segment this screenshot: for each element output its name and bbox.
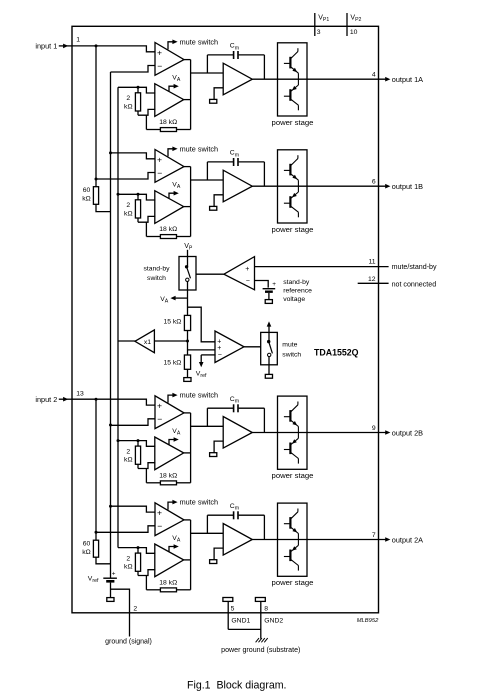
svg-text:18 kΩ: 18 kΩ bbox=[159, 226, 177, 233]
mute switch control arrow ch1B bbox=[168, 149, 173, 157]
ground tab below mute switch bbox=[268, 365, 270, 375]
svg-text:power stage: power stage bbox=[272, 225, 314, 234]
wire ch2B inv input from Vref bus bbox=[111, 419, 156, 426]
resistor 2 kOhm ch2B bbox=[137, 441, 139, 447]
power stage internal wire ch1A bbox=[278, 78, 308, 80]
svg-text:18 kΩ: 18 kΩ bbox=[159, 580, 177, 587]
wire summing op-amp to mute switch bbox=[244, 346, 261, 348]
svg-text:switch: switch bbox=[147, 275, 166, 282]
transistor upper NPN ch2A bbox=[284, 523, 291, 525]
op-amp output stage ch1A bbox=[223, 63, 252, 95]
resistor 15 kOhm upper bbox=[184, 315, 190, 330]
svg-text:2: 2 bbox=[133, 606, 137, 613]
svg-text:kΩ: kΩ bbox=[82, 549, 90, 556]
wire ch1A inv input from Vref bus bbox=[111, 66, 156, 73]
svg-text:ground (signal): ground (signal) bbox=[105, 638, 152, 645]
svg-text:11: 11 bbox=[369, 259, 376, 266]
wire VA bus bbox=[117, 87, 119, 547]
svg-text:kΩ: kΩ bbox=[124, 564, 132, 571]
svg-text:kΩ: kΩ bbox=[124, 103, 132, 110]
wire Vref to summing op-amp - bbox=[201, 354, 215, 356]
mute switch box bbox=[261, 332, 278, 364]
svg-text:kΩ: kΩ bbox=[82, 196, 90, 203]
resistor 18 kOhm ch2A bbox=[146, 589, 160, 591]
svg-text:+: + bbox=[157, 154, 162, 164]
svg-text:mute/stand-by: mute/stand-by bbox=[392, 263, 437, 271]
svg-text:5: 5 bbox=[231, 606, 235, 613]
wire ch1A op-amp to power stage bbox=[252, 78, 277, 80]
wire stand-by switch to VA divider bbox=[187, 290, 189, 315]
power stage box ch2A bbox=[278, 503, 308, 576]
ground tab below divider bbox=[187, 369, 189, 377]
svg-text:60: 60 bbox=[83, 187, 91, 194]
resistor 18 kOhm ch1B bbox=[146, 236, 160, 238]
power stage box ch1A bbox=[278, 43, 308, 116]
svg-text:6: 6 bbox=[372, 179, 376, 186]
signal ground tab ch1B bbox=[214, 195, 223, 207]
mute switch control arrow ch2A bbox=[168, 502, 173, 510]
op-amp input stage ch2B bbox=[155, 396, 184, 429]
svg-text:12: 12 bbox=[368, 276, 376, 283]
svg-text:+: + bbox=[112, 570, 116, 577]
svg-text:switch: switch bbox=[282, 352, 301, 359]
wire ch2B non-inv input from input line bbox=[72, 399, 156, 405]
wire stand-by switch to comparator bbox=[196, 273, 224, 275]
svg-text:2: 2 bbox=[126, 555, 130, 562]
wire output pin 9 ch2B bbox=[307, 432, 386, 434]
wire input 2 bias bus bbox=[95, 399, 97, 540]
svg-text:+: + bbox=[272, 281, 276, 288]
svg-text:−: − bbox=[157, 168, 162, 178]
svg-text:power stage: power stage bbox=[272, 578, 314, 587]
svg-text:mute switch: mute switch bbox=[180, 144, 219, 153]
svg-text:13: 13 bbox=[76, 391, 84, 398]
resistor 18 kOhm ch1A bbox=[146, 129, 160, 131]
wire ch1B op-amp to power stage bbox=[252, 185, 277, 187]
resistor 18 kOhm ch2B bbox=[146, 482, 160, 484]
power stage internal wire ch1B bbox=[278, 185, 308, 187]
wire ch2B VA inv input node bbox=[138, 463, 155, 469]
resistor 2 kOhm ch1B bbox=[137, 194, 139, 200]
power stage box ch2B bbox=[278, 396, 308, 469]
node input 2 junction bbox=[95, 398, 98, 401]
transistor lower PNP ch1B bbox=[284, 202, 291, 204]
mute switch contact bbox=[268, 332, 270, 341]
svg-text:7: 7 bbox=[372, 532, 376, 539]
wire comparator tap to summing op-amp bbox=[188, 307, 216, 342]
svg-text:−: − bbox=[218, 352, 222, 359]
op-amp VA stage ch1B bbox=[155, 191, 184, 224]
wire divider middle bbox=[187, 331, 189, 356]
pin 13 input 2 bbox=[59, 398, 72, 400]
svg-text:reference: reference bbox=[283, 288, 312, 295]
svg-text:kΩ: kΩ bbox=[124, 210, 132, 217]
power stage box ch1B bbox=[278, 150, 308, 223]
wire ch1B to output op-amp bbox=[191, 179, 224, 181]
pin 5 GND1 bbox=[223, 598, 233, 602]
svg-text:output 1A: output 1A bbox=[392, 75, 423, 84]
wire ch2B to output op-amp bbox=[191, 425, 224, 427]
wire Vref bus bbox=[110, 72, 112, 578]
svg-text:+: + bbox=[217, 345, 221, 352]
resistor 2 kOhm ch2A bbox=[137, 548, 139, 554]
svg-text:MLB952: MLB952 bbox=[357, 618, 379, 624]
svg-text:18 kΩ: 18 kΩ bbox=[159, 119, 177, 126]
signal ground tab ch1A bbox=[214, 88, 223, 100]
svg-text:output 2A: output 2A bbox=[392, 535, 423, 544]
svg-text:10: 10 bbox=[350, 29, 358, 36]
signal ground tab ch2B bbox=[214, 441, 223, 453]
wire ch1A VA inv input node bbox=[138, 109, 155, 115]
stand-by switch contact bbox=[187, 257, 189, 267]
transistor lower PNP ch2A bbox=[284, 556, 291, 558]
wire VP to stand-by switch bbox=[187, 250, 189, 257]
op-amp input stage ch1A bbox=[155, 43, 184, 76]
svg-text:−: − bbox=[157, 521, 162, 531]
wire ch2A VA inv input node bbox=[138, 570, 155, 576]
svg-text:3: 3 bbox=[317, 29, 321, 36]
svg-text:60: 60 bbox=[83, 541, 91, 548]
svg-text:+: + bbox=[157, 508, 162, 518]
wire ch1B output junction bbox=[184, 166, 191, 168]
transistor upper NPN ch2B bbox=[284, 416, 291, 418]
svg-text:8: 8 bbox=[264, 606, 268, 613]
svg-text:2: 2 bbox=[126, 448, 130, 455]
svg-text:Fig.1 Block diagram.: Fig.1 Block diagram. bbox=[187, 679, 287, 691]
svg-text:TDA1552Q: TDA1552Q bbox=[314, 348, 359, 358]
svg-text:mute switch: mute switch bbox=[180, 498, 219, 507]
wire ch1A output junction bbox=[184, 59, 191, 61]
svg-text:x1: x1 bbox=[144, 339, 151, 346]
svg-text:GND1: GND1 bbox=[231, 618, 250, 625]
op-amp VA stage ch2B bbox=[155, 437, 184, 470]
svg-text:output 1B: output 1B bbox=[392, 182, 423, 191]
pin 8 GND2 bbox=[255, 598, 265, 602]
svg-text:input 1: input 1 bbox=[35, 42, 57, 51]
svg-text:+: + bbox=[157, 401, 162, 411]
wire input 1 bias bus bbox=[95, 46, 97, 187]
svg-text:15 kΩ: 15 kΩ bbox=[163, 318, 181, 325]
capacitor Cm ch1A bbox=[206, 55, 208, 73]
resistor 60 kOhm (input 2) bbox=[93, 540, 98, 557]
pin 1 input 1 bbox=[59, 45, 72, 47]
svg-text:2: 2 bbox=[126, 95, 130, 102]
capacitor Cm ch1B bbox=[206, 162, 208, 180]
VA control arrow ch1A bbox=[169, 86, 174, 91]
svg-text:not connected: not connected bbox=[392, 280, 437, 288]
wire ch2A VA non-inv input from VA bus bbox=[118, 548, 155, 554]
svg-text:power stage: power stage bbox=[272, 471, 314, 480]
capacitor Cm ch2A bbox=[206, 515, 208, 533]
wire ch2B op-amp to power stage bbox=[252, 432, 277, 434]
op-amp input stage ch1B bbox=[155, 150, 184, 183]
svg-text:+: + bbox=[157, 47, 162, 57]
transistor lower PNP ch1A bbox=[284, 95, 291, 97]
op-amp input stage ch2A bbox=[155, 503, 184, 536]
svg-text:power stage: power stage bbox=[272, 118, 314, 127]
wire ch1B non-inv input from Vref bus bbox=[111, 153, 156, 159]
svg-text:−: − bbox=[157, 61, 162, 71]
svg-text:stand-by: stand-by bbox=[143, 266, 170, 273]
op-amp VA stage ch2A bbox=[155, 544, 184, 577]
wire ch1A to output op-amp bbox=[191, 72, 224, 74]
capacitor Cm ch2B bbox=[206, 408, 208, 426]
wire ch1A VA non-inv input from VA bus bbox=[118, 87, 155, 93]
svg-text:voltage: voltage bbox=[283, 296, 305, 303]
svg-text:GND2: GND2 bbox=[264, 618, 283, 625]
svg-text:mute: mute bbox=[282, 342, 297, 349]
pin 12 not connected stub bbox=[358, 282, 389, 284]
svg-text:1: 1 bbox=[76, 36, 80, 43]
wire output pin 7 ch2A bbox=[307, 539, 386, 541]
mute switch control arrow ch2B bbox=[168, 395, 173, 403]
wire x1 buffer line bbox=[118, 340, 188, 342]
wire ch2B VA non-inv input from VA bus bbox=[118, 441, 155, 447]
svg-text:9: 9 bbox=[372, 425, 376, 432]
svg-text:stand-by: stand-by bbox=[283, 279, 310, 286]
svg-text:15 kΩ: 15 kΩ bbox=[163, 360, 181, 367]
signal ground tab ch2A bbox=[214, 548, 223, 560]
svg-text:mute switch: mute switch bbox=[180, 37, 219, 46]
svg-text:output 2B: output 2B bbox=[392, 428, 423, 437]
wire ch2A to output op-amp bbox=[191, 532, 224, 534]
wire 60k (input 2) to Vref bus bbox=[96, 557, 111, 564]
svg-text:2: 2 bbox=[126, 202, 130, 209]
wire ch1A non-inv input from input line bbox=[72, 46, 156, 52]
op-amp mute summing bbox=[215, 331, 244, 363]
wire ch2A op-amp to power stage bbox=[252, 539, 277, 541]
svg-text:−: − bbox=[157, 414, 162, 424]
wire divider to summing op-amp + bbox=[188, 349, 216, 351]
transistor upper NPN ch1A bbox=[284, 62, 291, 64]
wire ch1B VA inv input node bbox=[138, 216, 155, 222]
power stage internal wire ch2B bbox=[278, 432, 308, 434]
wire GND1 to GND2 bbox=[228, 628, 261, 630]
wire ch2A non-inv input from Vref bus bbox=[111, 506, 156, 512]
resistor 2 kOhm ch1A bbox=[137, 87, 139, 93]
svg-text:power ground (substrate): power ground (substrate) bbox=[221, 646, 300, 654]
op-amp output stage ch1B bbox=[223, 170, 252, 202]
wire ch1B inv input from input bus bbox=[96, 173, 156, 180]
IC boundary box bbox=[72, 26, 379, 613]
VA control arrow ch2B bbox=[169, 440, 174, 445]
wire to pin 2 ground (signal) bbox=[111, 589, 130, 636]
VA tap arrow bbox=[174, 297, 188, 299]
stand-by reference voltage source bbox=[255, 281, 269, 288]
VA control arrow ch2A bbox=[169, 547, 174, 552]
wire ch2B output junction bbox=[184, 412, 191, 414]
svg-text:kΩ: kΩ bbox=[124, 457, 132, 464]
power ground symbol bbox=[256, 638, 259, 642]
wire ch2A inv input from input bus bbox=[96, 526, 156, 533]
op-amp VA stage ch1A bbox=[155, 84, 184, 117]
transistor lower PNP ch2B bbox=[284, 449, 291, 451]
pin 10 VP2 supply bbox=[346, 13, 348, 36]
pin 11 mute/stand-by bbox=[255, 266, 389, 268]
wire ch1B VA non-inv input from VA bus bbox=[118, 194, 155, 200]
pin 3 VP1 supply bbox=[314, 13, 316, 36]
svg-text:−: − bbox=[246, 278, 250, 285]
mute switch control arrow ch1A bbox=[168, 42, 173, 50]
svg-text:4: 4 bbox=[372, 72, 376, 79]
comparator stand-by bbox=[224, 257, 255, 290]
resistor 15 kOhm lower bbox=[184, 355, 190, 369]
buffer x1 bbox=[135, 330, 155, 353]
node input 1 junction bbox=[95, 44, 98, 47]
op-amp output stage ch2A bbox=[223, 524, 252, 556]
svg-text:input 2: input 2 bbox=[35, 395, 57, 404]
wire 60k (input 1) to Vref bus bbox=[96, 204, 111, 211]
op-amp output stage ch2B bbox=[223, 417, 252, 449]
svg-text:18 kΩ: 18 kΩ bbox=[159, 473, 177, 480]
power stage internal wire ch2A bbox=[278, 539, 308, 541]
resistor 60 kOhm (input 1) bbox=[93, 187, 98, 205]
wire output pin 6 ch1B bbox=[307, 185, 386, 187]
transistor upper NPN ch1B bbox=[284, 169, 291, 171]
stand-by switch box bbox=[179, 257, 196, 291]
VA control arrow ch1B bbox=[169, 193, 174, 198]
mute switch control arrow bbox=[268, 326, 270, 333]
wire Vref source to ground tab bbox=[110, 583, 112, 598]
svg-text:+: + bbox=[245, 266, 249, 273]
svg-text:mute switch: mute switch bbox=[180, 391, 219, 400]
wire output pin 4 ch1A bbox=[307, 78, 386, 80]
wire ch2A output junction bbox=[184, 519, 191, 521]
